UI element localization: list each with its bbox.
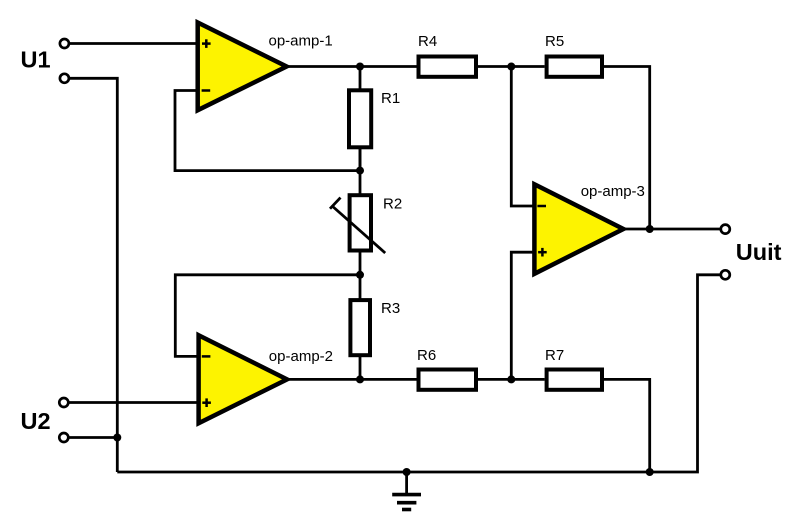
junction op-amp-1 output / R1 xyxy=(356,63,364,71)
svg-text:R1: R1 xyxy=(381,90,400,107)
wire R5 right feedback down to op-amp-3 output xyxy=(604,67,650,230)
wire R2 column segment xyxy=(359,148,362,196)
svg-text:R2: R2 xyxy=(383,196,402,213)
wire R7 right then down to bottom rail xyxy=(604,379,650,472)
junction R1 / R2 / feedback-1 xyxy=(356,167,364,175)
wire op-amp-2 output to R6 xyxy=(286,378,417,381)
wire U1 top input to op-amp-1 + xyxy=(64,42,197,45)
resistor R5 xyxy=(545,33,602,77)
svg-text:op-amp-1: op-amp-1 xyxy=(269,33,333,50)
op-amp U3 (op-amp-3) xyxy=(534,183,645,274)
svg-text:R3: R3 xyxy=(381,300,400,317)
terminal U2 bottom xyxy=(59,433,68,442)
op-amp U1 (op-amp-1) xyxy=(198,23,333,111)
junction op-amp-2 output / R3 xyxy=(356,375,364,383)
wire R6/R7 node up to op-amp-3 plus xyxy=(511,252,534,379)
resistor R1 xyxy=(349,90,400,148)
terminal Uuit bottom xyxy=(721,270,730,279)
wire op-amp-2 feedback (minus input to R2/R3 node) xyxy=(175,275,360,357)
wire op-amp-3 output to Uuit terminal xyxy=(623,228,720,231)
wire bottom ground rail xyxy=(117,275,720,472)
svg-text:R5: R5 xyxy=(545,33,564,50)
svg-text:op-amp-3: op-amp-3 xyxy=(581,183,645,200)
junction R7 / bottom rail xyxy=(646,468,654,476)
junction R6 / R7 node xyxy=(507,375,515,383)
terminal U1 bottom xyxy=(60,74,69,83)
junction U2 bottom / vertical line xyxy=(113,434,121,442)
wire op-amp-1 feedback (minus input to R1/R2 node) xyxy=(175,91,360,171)
wire R4 to R5 xyxy=(478,65,545,68)
terminal U1 top xyxy=(60,39,69,48)
wire R6 to R7 xyxy=(478,378,545,381)
op-amp U2 (op-amp-2) xyxy=(199,335,333,423)
wire op-amp-1 output to R4 xyxy=(286,65,417,68)
junction R4 / R5 node xyxy=(507,63,515,71)
wire R4/R5 node down to op-amp-3 minus xyxy=(511,67,534,207)
terminal Uuit top xyxy=(721,225,730,234)
wire U1 bottom terminal right then down to bottom rail xyxy=(64,78,117,472)
wire R2 to R3 segment xyxy=(359,250,362,301)
junction ground / bottom rail xyxy=(403,468,411,476)
wire U2 top input to op-amp-2 + xyxy=(64,401,199,404)
svg-text:U2: U2 xyxy=(21,408,51,434)
svg-text:R4: R4 xyxy=(418,33,437,50)
resistor R3 xyxy=(350,300,400,355)
wire node A vertical through R1 R2 R3 column xyxy=(359,67,362,171)
junction op-amp-3 output / R5 feedback xyxy=(646,225,654,233)
resistor R2 (trimmer) xyxy=(330,195,402,253)
terminal U2 top xyxy=(59,398,68,407)
ground xyxy=(392,472,421,510)
svg-text:Uuit: Uuit xyxy=(736,239,782,265)
svg-text:R7: R7 xyxy=(545,347,564,364)
junction R2 / R3 / feedback-2 xyxy=(356,271,364,279)
svg-text:U1: U1 xyxy=(21,47,51,73)
wire R3 bottom segment xyxy=(359,356,362,380)
wire U2 bottom terminal to vertical line xyxy=(64,436,118,439)
resistor R4 xyxy=(418,33,476,77)
resistor R7 xyxy=(545,347,602,390)
resistor R6 xyxy=(417,347,476,390)
svg-text:R6: R6 xyxy=(417,347,436,364)
svg-text:op-amp-2: op-amp-2 xyxy=(269,348,333,365)
